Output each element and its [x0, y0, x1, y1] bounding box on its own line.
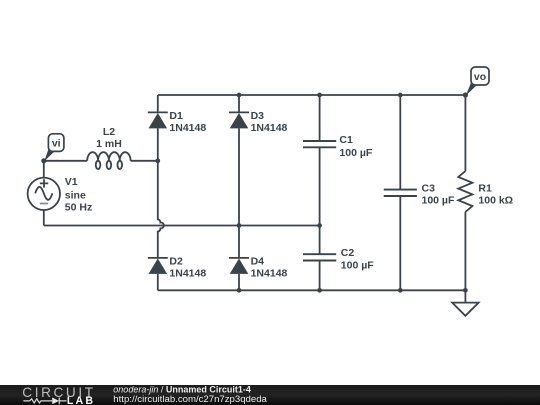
capacitor C3: [384, 190, 417, 196]
svg-text:vo: vo: [474, 71, 486, 83]
node vi flag: [44, 134, 64, 162]
svg-text:D1: D1: [169, 110, 183, 122]
svg-text:LAB: LAB: [67, 395, 95, 405]
diode D3: [229, 112, 249, 128]
svg-text:100 µF: 100 µF: [422, 195, 455, 207]
svg-text:D4: D4: [251, 255, 265, 267]
junction dot top bus C1: [317, 93, 322, 98]
wire C3 bottom lead: [399, 196, 401, 290]
wire C3 top lead: [399, 95, 401, 190]
svg-text:C3: C3: [422, 183, 436, 195]
junction dot ground node: [463, 288, 468, 293]
wire R1 bottom lead to ground: [464, 212, 466, 303]
svg-text:sine: sine: [65, 189, 86, 201]
svg-text:D2: D2: [169, 255, 183, 267]
wire D1-D2 with hop over low wire: [158, 128, 164, 258]
V1 minus sign: [40, 203, 48, 205]
junction dot vo node: [463, 92, 468, 97]
wire top bus: [158, 94, 466, 96]
wire C1-C2: [319, 147, 321, 254]
svg-text:100 µF: 100 µF: [341, 260, 374, 272]
wire D3 top lead: [238, 95, 240, 112]
junction dot vi node: [41, 158, 46, 163]
wire bottom bus: [158, 289, 466, 291]
ground: [452, 303, 478, 316]
wire R1 top lead: [464, 95, 466, 171]
svg-text:1N4148: 1N4148: [251, 267, 288, 279]
wire mid left (vi to L2): [44, 160, 87, 162]
svg-text:50 Hz: 50 Hz: [65, 201, 92, 213]
junction dot bottom bus C2: [317, 288, 322, 293]
wire D1 top lead: [157, 95, 159, 112]
wire D4 bottom lead: [238, 274, 240, 290]
inductor L2: [87, 152, 130, 169]
diode D2: [148, 258, 168, 274]
footer bar: [0, 385, 540, 405]
svg-text:R1: R1: [478, 183, 492, 195]
wire low (V1 bottom to C2 top): [44, 225, 320, 227]
svg-text:onodera-jin / Unnamed Circuit1: onodera-jin / Unnamed Circuit1-4: [113, 384, 251, 394]
svg-text:V1: V1: [65, 176, 78, 188]
diode D1: [148, 112, 168, 128]
svg-text:vi: vi: [52, 137, 61, 149]
wire C2 bottom lead: [319, 261, 321, 291]
wire D3-D4: [238, 128, 240, 258]
capacitor C2: [303, 254, 336, 260]
diode D4: [229, 258, 249, 274]
footer logo resistor-diode: [23, 398, 66, 405]
svg-text:1N4148: 1N4148: [169, 122, 206, 134]
node vo flag: [466, 67, 489, 96]
svg-text:L2: L2: [103, 126, 115, 138]
wire C1 top lead: [319, 95, 321, 141]
voltage source V1: [28, 178, 60, 210]
svg-text:C2: C2: [341, 247, 355, 259]
resistor R1: [458, 171, 472, 212]
svg-text:C1: C1: [339, 134, 353, 146]
junction dot L2/D column: [155, 158, 160, 163]
wire D2 bottom lead: [157, 274, 159, 290]
junction dot top bus D3: [237, 93, 242, 98]
wire V1 bottom lead: [43, 210, 45, 226]
wire L2 to node: [131, 160, 158, 162]
wire V1 top lead: [43, 161, 45, 178]
svg-text:100 kΩ: 100 kΩ: [478, 195, 513, 207]
junction dot bottom bus C3: [398, 288, 403, 293]
svg-text:1 mH: 1 mH: [96, 138, 122, 150]
svg-text:1N4148: 1N4148: [169, 267, 206, 279]
svg-text:1N4148: 1N4148: [251, 122, 288, 134]
junction dot low wire C2: [317, 223, 322, 228]
svg-text:D3: D3: [251, 110, 265, 122]
svg-text:http://circuitlab.com/c27n7zp3: http://circuitlab.com/c27n7zp3qdeda: [113, 394, 267, 405]
junction dot low wire D4: [237, 223, 242, 228]
junction dot bottom bus D4: [237, 288, 242, 293]
svg-text:100 µF: 100 µF: [339, 147, 372, 159]
junction dot top bus C3: [398, 93, 403, 98]
capacitor C1: [303, 141, 336, 147]
